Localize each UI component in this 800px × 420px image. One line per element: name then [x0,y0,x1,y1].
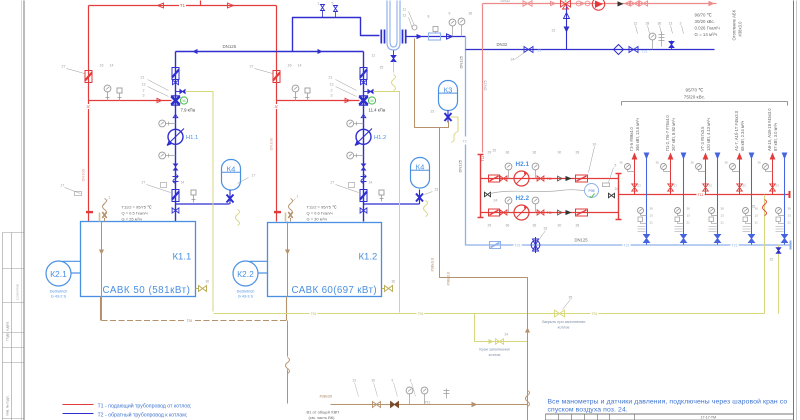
svg-text:2: 2 [331,89,333,93]
svg-text:13: 13 [687,214,691,218]
svg-text:DeDietrich: DeDietrich [50,290,68,294]
svg-text:G = 25 м³/ч: G = 25 м³/ч [122,217,143,222]
svg-text:К3: К3 [444,86,453,95]
svg-text:21: 21 [538,49,542,53]
svg-text:24: 24 [505,333,509,337]
svg-text:DN125: DN125 [459,55,464,68]
svg-text:13: 13 [721,214,725,218]
svg-text:17-17-ТМ: 17-17-ТМ [701,416,717,420]
svg-text:Т2 - обратный трубопровод к ко: Т2 - обратный трубопровод к котлам; [98,412,188,419]
svg-text:спуском воздуха поз. 24.: спуском воздуха поз. 24. [548,407,628,414]
svg-text:Т21: Т21 [514,244,520,248]
svg-text:27: 27 [142,181,146,185]
svg-text:Кран заполнения: Кран заполнения [479,348,509,352]
svg-text:11: 11 [372,54,376,58]
svg-text:23: 23 [776,184,780,188]
svg-text:23: 23 [638,184,642,188]
svg-text:14: 14 [298,64,302,68]
svg-text:33: 33 [544,227,548,231]
svg-text:Т11: Т11 [481,156,485,162]
svg-text:G 43-2 S: G 43-2 S [51,294,67,298]
svg-text:Т91: Т91 [311,312,317,316]
svg-text:10: 10 [593,143,597,147]
svg-text:13: 13 [330,83,334,87]
svg-text:7.9 кПа: 7.9 кПа [181,108,196,113]
svg-text:DN100: DN100 [269,137,274,150]
svg-text:Н2.1: Н2.1 [516,161,530,168]
svg-text:36: 36 [725,161,729,165]
svg-text:27: 27 [250,65,254,69]
svg-text:21: 21 [687,221,691,225]
svg-text:#38x30: #38x30 [320,395,332,399]
svg-text:16: 16 [288,64,292,68]
svg-text:17: 17 [61,184,65,188]
svg-text:Все манометры и датчики давлен: Все манометры и датчики давления, подклю… [548,398,788,406]
svg-text:13: 13 [788,214,792,218]
svg-text:36: 36 [533,151,537,155]
svg-text:Т1 - подающий трубопровод от к: Т1 - подающий трубопровод от котлов; [98,403,192,410]
svg-text:Т11: Т11 [547,211,552,215]
svg-text:котлов: котлов [558,326,570,330]
svg-text:А8-15, А1В-19 #45x3.0: А8-15, А1В-19 #45x3.0 [767,108,772,151]
svg-text:14: 14 [369,181,373,185]
svg-text:23: 23 [435,188,439,192]
svg-text:5: 5 [332,2,334,6]
svg-text:1: 1 [297,195,299,199]
svg-text:23: 23 [674,184,678,188]
svg-text:12: 12 [634,22,638,26]
svg-text:16: 16 [100,64,104,68]
svg-text:29: 29 [488,151,492,155]
svg-text:36: 36 [758,161,762,165]
svg-text:Т91: Т91 [592,312,598,316]
svg-text:36: 36 [620,161,624,165]
svg-text:П1-2, П6-7 #76x4.0: П1-2, П6-7 #76x4.0 [665,115,670,151]
svg-text:36: 36 [650,207,654,211]
svg-text:17: 17 [252,174,256,178]
svg-text:36: 36 [788,207,792,211]
svg-text:13: 13 [650,214,654,218]
svg-text:3: 3 [143,94,145,98]
svg-text:36: 36 [687,207,691,211]
svg-text:36: 36 [721,207,725,211]
svg-text:29: 29 [488,224,492,228]
svg-text:Т11/2 = 95/75 ℃: Т11/2 = 95/75 ℃ [122,205,153,210]
svg-text:30: 30 [558,224,562,228]
svg-text:Р05: Р05 [588,189,594,193]
svg-text:23: 23 [431,110,435,114]
svg-text:9: 9 [449,12,451,16]
svg-text:3Г: 3Г [275,105,279,109]
svg-text:1: 1 [318,2,320,6]
svg-text:3: 3 [680,22,682,26]
svg-text:Q = 0.6 Гкал/ч: Q = 0.6 Гкал/ч [307,211,333,216]
svg-text:M: M [183,99,186,103]
svg-text:21: 21 [329,76,333,80]
svg-text:#38x3.0: #38x3.0 [738,21,743,37]
svg-text:Т11: Т11 [547,177,552,181]
svg-text:Т2: Т2 [463,140,467,144]
svg-text:28: 28 [576,224,580,228]
svg-text:14: 14 [181,181,185,185]
svg-text:Отопление АБК: Отопление АБК [732,9,737,40]
svg-text:30: 30 [372,379,376,383]
svg-text:36: 36 [506,224,510,228]
svg-text:8: 8 [428,15,430,19]
svg-text:21: 21 [141,76,145,80]
svg-text:28: 28 [646,22,650,26]
svg-text:394 кВт, 13.6 м³/ч: 394 кВт, 13.6 м³/ч [635,118,640,151]
svg-text:G = 30 м³/ч: G = 30 м³/ч [307,217,328,222]
svg-text:27: 27 [331,181,335,185]
svg-text:К4: К4 [227,165,236,174]
svg-text:23: 23 [743,184,747,188]
svg-text:90/70 ℃: 90/70 ℃ [695,13,712,18]
svg-text:36: 36 [469,12,473,16]
svg-text:3: 3 [331,94,333,98]
svg-text:25: 25 [493,149,497,153]
svg-text:36: 36 [506,151,510,155]
svg-text:Т1: Т1 [180,3,186,8]
svg-text:Q = 0.5 Гкал/ч: Q = 0.5 Гкал/ч [122,211,148,216]
svg-text:23: 23 [353,379,357,383]
svg-text:Т21: Т21 [731,244,737,248]
svg-text:13: 13 [142,83,146,87]
svg-text:68 кВт, 2.34 м³/ч: 68 кВт, 2.34 м³/ч [740,121,745,151]
svg-text:Т21: Т21 [623,244,629,248]
svg-text:Закрыть при заполнении: Закрыть при заполнении [542,320,586,324]
svg-text:Т91: Т91 [418,312,424,316]
svg-text:24: 24 [494,199,498,203]
svg-text:#38x3.0: #38x3.0 [447,272,451,286]
svg-text:Н2.2: Н2.2 [516,195,530,202]
svg-text:Т21: Т21 [642,50,648,54]
svg-text:36: 36 [656,161,660,165]
svg-text:5: 5 [615,164,617,168]
svg-text:36: 36 [206,280,210,284]
svg-text:Инв. № подл.: Инв. № подл. [6,396,10,416]
svg-text:23: 23 [709,184,713,188]
svg-text:36: 36 [755,207,759,211]
svg-text:котлов: котлов [489,353,501,357]
svg-text:36: 36 [392,280,396,284]
svg-text:К1.1: К1.1 [173,252,192,263]
svg-text:Н1.2: Н1.2 [374,135,386,141]
svg-text:30: 30 [558,151,562,155]
svg-text:G 43-3 S: G 43-3 S [238,294,254,298]
svg-text:11.4 кПа: 11.4 кПа [369,108,386,113]
svg-text:30/20 кВс.: 30/20 кВс. [695,19,715,24]
svg-text:27: 27 [62,65,66,69]
svg-text:21: 21 [721,221,725,225]
svg-text:Т91: Т91 [187,319,193,323]
svg-text:36: 36 [658,22,662,26]
svg-text:САВК 60(697 кВт): САВК 60(697 кВт) [292,285,377,296]
svg-text:DN125: DN125 [223,44,237,49]
svg-text:Г3-5 #89x4.0: Г3-5 #89x4.0 [629,126,634,151]
svg-text:Н1.1: Н1.1 [186,135,198,141]
svg-text:DN125: DN125 [458,159,463,172]
svg-text:25: 25 [770,258,774,262]
svg-text:DN125: DN125 [575,238,589,243]
svg-text:В1 от общей ХВП: В1 от общей ХВП [307,410,340,415]
svg-text:25: 25 [380,66,384,70]
svg-text:120 кВт, 4.13 м³/ч: 120 кВт, 4.13 м³/ч [706,118,711,151]
svg-text:9: 9 [392,379,394,383]
svg-text:24: 24 [615,187,619,191]
svg-text:1234567890: 1234567890 [16,283,20,300]
svg-text:G = 14 м³/ч: G = 14 м³/ч [695,32,718,37]
svg-text:13: 13 [669,22,673,26]
svg-text:36: 36 [691,161,695,165]
svg-text:А1-7, А1б-1Т #45x3.0: А1-7, А1б-1Т #45x3.0 [734,110,739,151]
svg-text:2: 2 [143,89,145,93]
svg-text:36: 36 [533,224,537,228]
svg-text:13: 13 [755,214,759,218]
svg-text:К2.2: К2.2 [237,269,254,279]
svg-text:3: 3 [410,379,412,383]
svg-text:Подп. и дата: Подп. и дата [6,321,10,340]
svg-text:К1.2: К1.2 [359,252,378,263]
svg-text:21: 21 [788,221,792,225]
svg-text:УТ-3 #57x3.5: УТ-3 #57x3.5 [700,126,705,151]
svg-text:95/70 ℃: 95/70 ℃ [686,88,705,93]
svg-text:M: M [371,99,374,103]
svg-text:87 кВт, 3.0 м³/ч: 87 кВт, 3.0 м³/ч [773,123,778,151]
svg-text:12: 12 [403,14,407,18]
svg-text:267 кВт, 8.92 м³/ч: 267 кВт, 8.92 м³/ч [671,118,676,151]
svg-text:Т11: Т11 [698,193,704,197]
svg-text:14: 14 [110,64,114,68]
svg-text:Т91: Т91 [425,401,431,405]
svg-text:К4: К4 [416,163,425,172]
svg-text:#38x3.0: #38x3.0 [431,258,435,272]
svg-text:DN32: DN32 [501,0,511,3]
svg-text:0.026 Гкал/ч: 0.026 Гкал/ч [695,26,720,31]
svg-text:DeDietrich: DeDietrich [237,290,255,294]
svg-text:35: 35 [569,296,573,300]
svg-text:(см. часть ВК): (см. часть ВК) [309,415,336,420]
svg-text:DN32: DN32 [497,42,508,47]
svg-text:Т11/2 = 95/75 ℃: Т11/2 = 95/75 ℃ [307,205,338,210]
svg-text:DN25: DN25 [483,79,488,90]
svg-text:24: 24 [511,58,515,62]
svg-text:САВК 50 (581кВт): САВК 50 (581кВт) [103,285,191,296]
svg-text:3Г: 3Г [87,105,91,109]
svg-text:75/20 кВс.: 75/20 кВс. [684,95,705,100]
svg-text:11: 11 [403,8,407,12]
svg-text:1: 1 [109,196,111,200]
svg-text:21: 21 [650,221,654,225]
svg-text:31: 31 [552,29,556,33]
svg-text:DN100: DN100 [81,168,86,181]
svg-text:28: 28 [576,151,580,155]
svg-text:21: 21 [755,221,759,225]
svg-text:25: 25 [752,205,756,209]
svg-text:К2.1: К2.1 [50,269,67,279]
